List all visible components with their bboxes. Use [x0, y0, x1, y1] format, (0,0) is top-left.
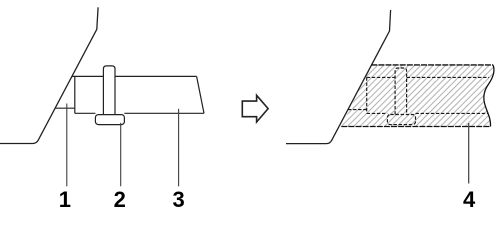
plate 3 bottom edge (right of head): [124, 112, 204, 114]
block 4 break line: [484, 65, 494, 127]
rivet 2 head: [95, 115, 124, 125]
hollow arrow: [242, 95, 268, 122]
hatch fill of block 4: [330, 55, 497, 135]
hidden notch bottom line: [348, 109, 367, 111]
wall notch bottom line: [55, 107, 75, 109]
wall 1 outline: [0, 7, 98, 143]
hidden plate top edge (right of pin): [407, 76, 489, 78]
rivet 2 shank with rounded top: [103, 66, 115, 115]
svg-text:4: 4: [463, 187, 476, 212]
leader line 1: [66, 104, 68, 187]
plate 3 top edge (right of pin): [115, 75, 197, 77]
leader line 2: [120, 123, 122, 187]
hidden rivet head: [387, 115, 415, 125]
hidden rivet shank: [395, 68, 407, 115]
block 4 top edge: [371, 64, 493, 66]
svg-text:1: 1: [59, 187, 71, 212]
hidden plate bottom edge (right of head): [416, 112, 489, 114]
leader line 4: [468, 123, 470, 184]
leader line 3: [178, 109, 180, 187]
plate 3 right slanted edge: [197, 76, 204, 113]
svg-text:2: 2: [114, 187, 126, 212]
block 4 bottom edge: [341, 126, 490, 128]
hidden plate bottom edge (left of head): [367, 112, 388, 114]
svg-text:3: 3: [172, 187, 184, 212]
hidden plate top edge (left of pin): [367, 76, 395, 78]
plate 3 left edge: [74, 76, 76, 113]
wall outline (right): [286, 10, 391, 144]
plate 3 top edge (left of pin): [72, 75, 103, 77]
hidden plate left edge: [366, 77, 368, 113]
plate 3 bottom edge (left of head): [75, 112, 96, 114]
